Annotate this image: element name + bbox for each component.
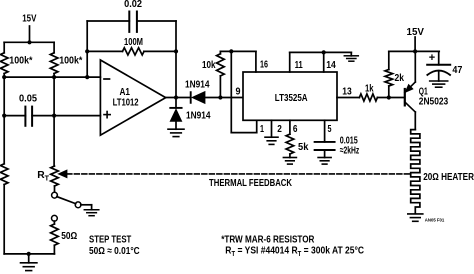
svg-text:11: 11: [295, 60, 303, 71]
svg-text:STEP TEST: STEP TEST: [89, 234, 132, 245]
svg-text:2: 2: [277, 124, 282, 135]
svg-text:5: 5: [328, 124, 332, 135]
svg-text:T: T: [45, 174, 50, 183]
svg-text:15V: 15V: [407, 27, 425, 38]
svg-text:50Ω: 50Ω: [61, 231, 77, 242]
svg-text:0.02: 0.02: [124, 0, 142, 10]
svg-text:AN05 F01: AN05 F01: [425, 218, 445, 223]
svg-text:5k: 5k: [298, 142, 309, 153]
svg-text:1N914: 1N914: [185, 80, 210, 91]
svg-text:1N914: 1N914: [186, 111, 211, 122]
svg-text:THERMAL FEEDBACK: THERMAL FEEDBACK: [209, 178, 292, 189]
svg-text:13: 13: [342, 87, 352, 98]
svg-text:10k: 10k: [202, 60, 216, 71]
svg-text:50Ω ≈ 0.01°C: 50Ω ≈ 0.01°C: [89, 246, 140, 257]
svg-text:2N5023: 2N5023: [419, 97, 449, 108]
svg-text:1: 1: [260, 124, 264, 135]
svg-text:+: +: [429, 52, 435, 64]
svg-text:*TRW MAR-6 RESISTOR: *TRW MAR-6 RESISTOR: [221, 234, 315, 245]
svg-text:47: 47: [452, 65, 462, 76]
svg-text:2k: 2k: [395, 73, 405, 84]
svg-text:LT1012: LT1012: [113, 98, 139, 109]
svg-text:RT = YSI #44014 RT = 300k AT 2: RT = YSI #44014 RT = 300k AT 25°C: [225, 245, 364, 258]
svg-text:6: 6: [293, 124, 298, 135]
svg-text:0.05: 0.05: [19, 94, 37, 105]
svg-text:16: 16: [260, 60, 268, 71]
svg-text:15V: 15V: [22, 13, 36, 24]
svg-text:A1: A1: [120, 87, 131, 98]
svg-text:LT3525A: LT3525A: [275, 93, 308, 104]
svg-text:100M: 100M: [124, 37, 143, 48]
svg-text:≈2kHz: ≈2kHz: [340, 145, 360, 156]
svg-text:9: 9: [236, 86, 241, 97]
svg-text:20Ω HEATER: 20Ω HEATER: [423, 172, 474, 183]
svg-text:100k*: 100k*: [59, 55, 82, 66]
svg-text:14: 14: [326, 60, 336, 71]
svg-text:100k*: 100k*: [9, 55, 32, 66]
svg-text:1k: 1k: [365, 83, 374, 94]
